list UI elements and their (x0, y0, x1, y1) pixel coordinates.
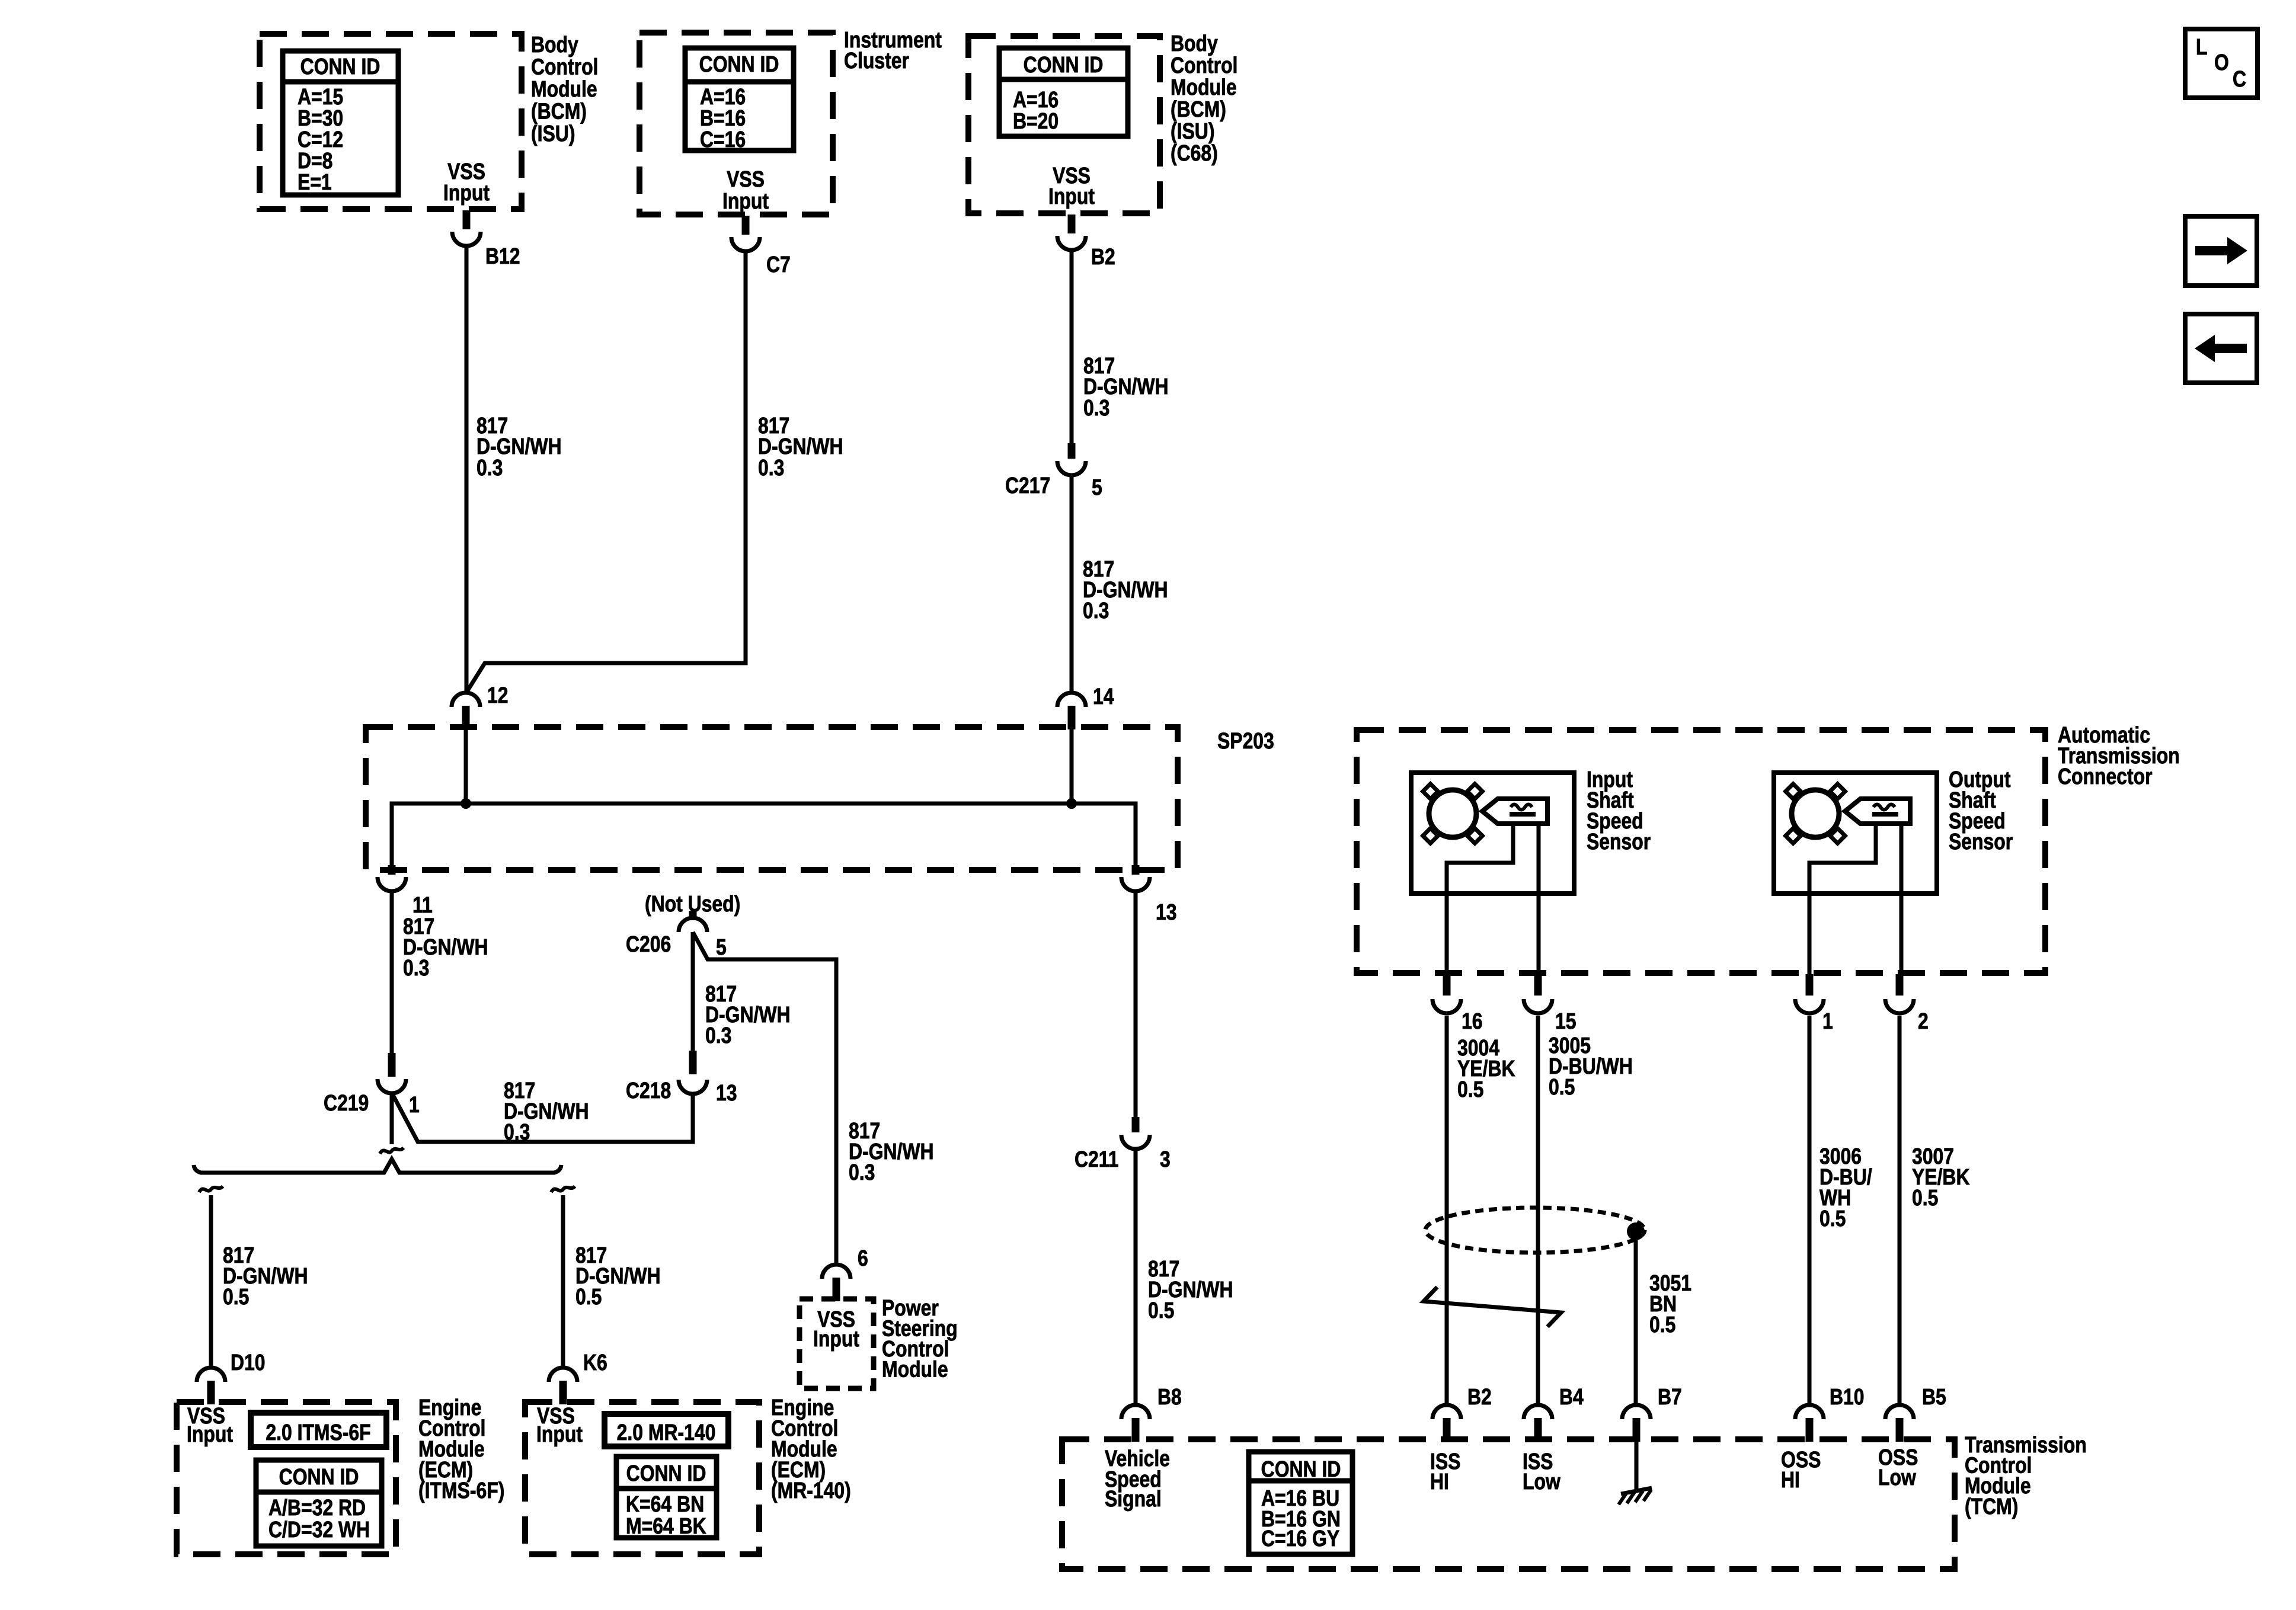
svg-text:13: 13 (716, 1080, 737, 1105)
svg-text:(C68): (C68) (1171, 140, 1218, 165)
svg-text:Module: Module (1171, 75, 1237, 100)
svg-text:Connector: Connector (2058, 764, 2153, 789)
svg-text:Sensor: Sensor (1587, 829, 1651, 854)
svg-text:6: 6 (858, 1246, 868, 1270)
svg-text:B=20: B=20 (1013, 108, 1059, 133)
svg-text:0.3: 0.3 (403, 955, 429, 980)
svg-text:C218: C218 (626, 1078, 671, 1103)
svg-text:0.3: 0.3 (1083, 395, 1109, 420)
svg-text:E=1: E=1 (298, 169, 332, 194)
svg-text:(MR-140): (MR-140) (771, 1478, 851, 1503)
svg-text:D10: D10 (231, 1350, 266, 1375)
svg-text:0.3: 0.3 (849, 1160, 875, 1185)
svg-text:1: 1 (409, 1092, 420, 1117)
svg-text:CONN ID: CONN ID (300, 54, 380, 79)
svg-text:0.3: 0.3 (705, 1023, 731, 1048)
svg-text:Input: Input (536, 1422, 583, 1446)
svg-text:0.5: 0.5 (1148, 1298, 1174, 1323)
svg-text:B8: B8 (1157, 1384, 1182, 1409)
svg-text:0.5: 0.5 (1457, 1077, 1483, 1102)
svg-text:Control: Control (1171, 53, 1237, 78)
svg-text:Input: Input (813, 1326, 859, 1351)
svg-text:CONN ID: CONN ID (279, 1464, 359, 1489)
svg-text:Module: Module (531, 76, 597, 101)
svg-text:C217: C217 (1005, 473, 1050, 498)
svg-text:Low: Low (1523, 1469, 1560, 1494)
svg-text:15: 15 (1555, 1009, 1576, 1033)
svg-text:5: 5 (716, 934, 727, 959)
svg-text:CONN ID: CONN ID (699, 52, 779, 76)
svg-text:CONN ID: CONN ID (626, 1461, 706, 1486)
svg-text:0.3: 0.3 (504, 1119, 530, 1144)
svg-text:CONN ID: CONN ID (1024, 52, 1104, 77)
svg-text:L: L (2196, 34, 2207, 59)
svg-text:2.0 ITMS-6F: 2.0 ITMS-6F (266, 1420, 370, 1445)
svg-text:SP203: SP203 (1217, 728, 1274, 753)
svg-text:2.0 MR-140: 2.0 MR-140 (617, 1420, 716, 1445)
svg-text:(ISU): (ISU) (531, 121, 575, 146)
svg-text:Module: Module (882, 1357, 948, 1382)
svg-text:B12: B12 (485, 244, 520, 268)
svg-text:(BCM): (BCM) (1171, 97, 1226, 121)
svg-text:16: 16 (1462, 1009, 1483, 1033)
svg-text:C=16: C=16 (700, 127, 746, 152)
svg-text:Signal: Signal (1105, 1486, 1162, 1511)
svg-text:0.3: 0.3 (1083, 598, 1109, 623)
svg-text:0.5: 0.5 (575, 1284, 602, 1309)
svg-text:K6: K6 (583, 1350, 607, 1375)
svg-text:Control: Control (531, 55, 598, 79)
svg-text:Input: Input (1048, 184, 1095, 209)
svg-text:13: 13 (1156, 900, 1177, 924)
svg-text:HI: HI (1781, 1467, 1800, 1492)
svg-text:3: 3 (1160, 1147, 1171, 1172)
svg-text:5: 5 (1092, 475, 1102, 500)
svg-text:0.5: 0.5 (223, 1284, 249, 1309)
svg-text:CONN ID: CONN ID (1261, 1457, 1341, 1481)
svg-text:C219: C219 (324, 1090, 369, 1115)
svg-text:B2: B2 (1467, 1384, 1492, 1409)
svg-text:2: 2 (1918, 1009, 1929, 1033)
svg-text:Body: Body (1171, 31, 1218, 56)
svg-text:M=64 BK: M=64 BK (626, 1513, 706, 1538)
svg-text:A/B=32 RD: A/B=32 RD (268, 1495, 366, 1520)
svg-text:(BCM): (BCM) (531, 99, 587, 124)
svg-text:1: 1 (1822, 1009, 1833, 1033)
svg-text:B7: B7 (1658, 1384, 1682, 1409)
svg-text:C=16 GY: C=16 GY (1261, 1526, 1339, 1551)
svg-text:0.5: 0.5 (1649, 1312, 1675, 1337)
svg-text:B10: B10 (1830, 1384, 1865, 1409)
svg-text:C211: C211 (1075, 1147, 1119, 1172)
svg-text:B5: B5 (1922, 1384, 1946, 1409)
svg-text:Cluster: Cluster (844, 48, 909, 73)
svg-text:Input: Input (187, 1422, 233, 1446)
svg-text:Input: Input (443, 180, 490, 205)
svg-text:14: 14 (1093, 684, 1114, 709)
svg-text:(Not Used): (Not Used) (645, 891, 740, 916)
svg-text:VSS: VSS (727, 167, 765, 191)
svg-text:(ITMS-6F): (ITMS-6F) (418, 1478, 504, 1503)
svg-text:Body: Body (531, 32, 578, 57)
svg-text:O: O (2214, 50, 2229, 75)
svg-text:Input: Input (722, 188, 769, 213)
svg-text:C: C (2233, 66, 2246, 91)
svg-text:(ISU): (ISU) (1171, 119, 1214, 143)
svg-text:(TCM): (TCM) (1965, 1494, 2018, 1519)
svg-text:0.5: 0.5 (1819, 1206, 1846, 1231)
svg-text:Sensor: Sensor (1949, 829, 2013, 854)
svg-text:C206: C206 (626, 932, 671, 956)
svg-text:0.5: 0.5 (1549, 1074, 1575, 1099)
svg-text:B2: B2 (1091, 244, 1115, 269)
svg-text:K=64 BN: K=64 BN (626, 1491, 704, 1516)
svg-text:0.3: 0.3 (758, 455, 784, 480)
svg-text:Low: Low (1878, 1465, 1916, 1490)
svg-text:HI: HI (1430, 1469, 1449, 1494)
svg-text:C7: C7 (766, 252, 791, 277)
svg-text:B4: B4 (1559, 1384, 1584, 1409)
svg-text:0.3: 0.3 (477, 455, 503, 480)
svg-text:0.5: 0.5 (1912, 1185, 1938, 1210)
svg-text:12: 12 (487, 683, 509, 708)
svg-text:C/D=32 WH: C/D=32 WH (268, 1517, 370, 1542)
